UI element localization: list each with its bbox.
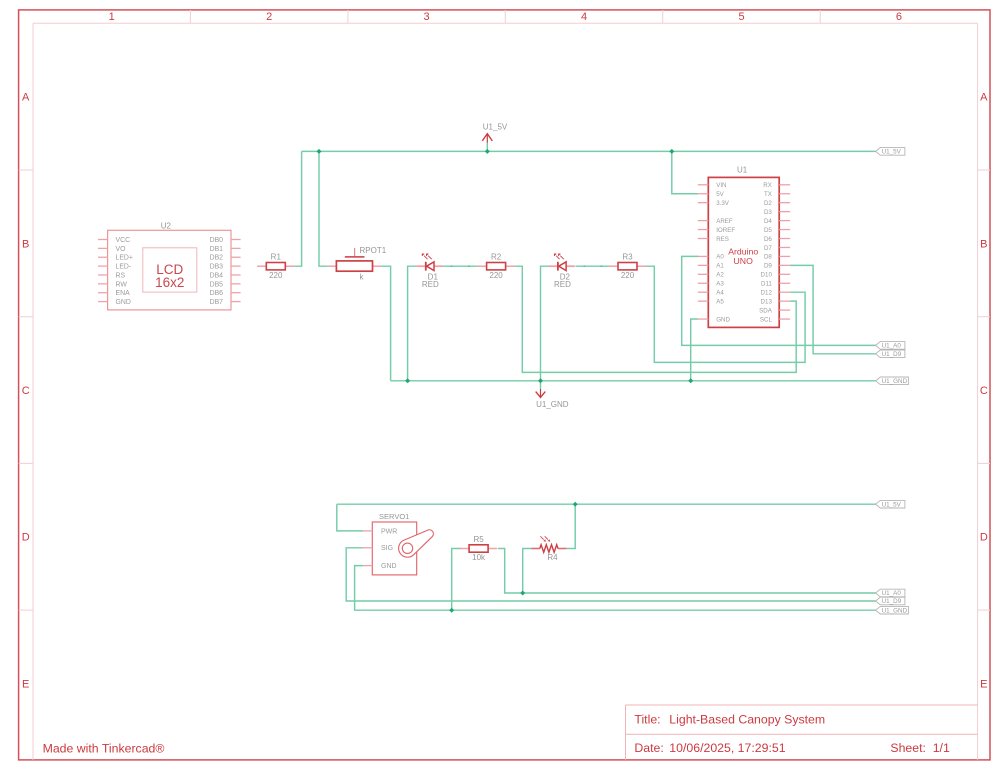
svg-text:LED-: LED- [116, 264, 132, 271]
svg-text:B: B [980, 238, 987, 250]
potentiometer RPOT1 [328, 246, 387, 281]
net flag U1_5V [876, 500, 905, 508]
wire U1 A0 to flag [682, 256, 876, 345]
Arduino UNO U1 [698, 165, 790, 327]
svg-text:A5: A5 [716, 298, 724, 305]
svg-text:SDA: SDA [759, 307, 773, 314]
svg-text:3.3V: 3.3V [716, 200, 730, 207]
wire D2 anode drop [541, 266, 549, 381]
svg-text:GND: GND [116, 299, 131, 306]
svg-text:U1_5V: U1_5V [483, 122, 508, 131]
junction 5V rail / RPOT1 [317, 149, 322, 154]
svg-text:SCL: SCL [760, 316, 773, 323]
svg-text:1/1: 1/1 [933, 741, 950, 755]
svg-text:DB6: DB6 [210, 290, 224, 297]
wire rail to SERVO1 PWR [337, 504, 364, 531]
U1 pin SCL [779, 318, 790, 320]
junction 5V rail / U1_5V symbol [485, 149, 490, 154]
LCD pin LED- [98, 265, 108, 267]
LCD pin DB6 [231, 292, 241, 294]
svg-text:Sheet:: Sheet: [890, 741, 926, 755]
U1 pin 5V [698, 193, 709, 195]
U1 pin IOREF [698, 229, 709, 231]
wire U1 GND pin drop [691, 319, 698, 381]
svg-text:D9: D9 [764, 263, 772, 270]
LCD pin GND [98, 301, 108, 303]
U1 pin D2 [779, 202, 790, 204]
wire rail to RPOT1 [319, 151, 328, 266]
net flag U1_A0 [876, 342, 905, 350]
servo motor SERVO1 [363, 512, 433, 575]
U1 pin A1 [698, 264, 709, 266]
svg-text:AREF: AREF [716, 218, 733, 225]
LED D1 (RED) [416, 254, 443, 289]
LCD module U2 [98, 221, 241, 310]
wire R3 to U1 D12 [646, 266, 805, 362]
U1 pin 3.3V [698, 202, 709, 204]
U1 pin D8 [779, 255, 790, 257]
svg-text:A4: A4 [716, 290, 724, 297]
svg-text:D4: D4 [764, 218, 772, 225]
svg-text:6: 6 [896, 11, 902, 23]
LCD pin VO [98, 247, 108, 249]
svg-text:R2: R2 [491, 253, 502, 262]
wire D2 to R3 [576, 265, 610, 267]
wire 5V rail [302, 150, 876, 152]
svg-text:DB2: DB2 [210, 255, 224, 262]
servo pin GND [363, 565, 372, 567]
resistor R1 [257, 253, 294, 280]
ground symbol U1_GND (down arrow) [536, 389, 569, 409]
svg-text:10k: 10k [472, 553, 486, 562]
svg-text:VCC: VCC [116, 237, 131, 244]
wire R1 to 5V rail [293, 151, 301, 266]
wire stub to U1_GND arrow [540, 381, 542, 389]
svg-text:RX: RX [763, 182, 772, 189]
wire servo 5V rail [337, 503, 876, 505]
U1 pin D3 [779, 211, 790, 213]
power symbol U1_5V (up arrow) [482, 122, 508, 142]
U1 pin A2 [698, 273, 709, 275]
svg-text:UNO: UNO [734, 256, 754, 266]
svg-text:R4: R4 [547, 553, 558, 562]
svg-text:U1_5V: U1_5V [882, 501, 902, 508]
resistor R3 [609, 253, 646, 280]
svg-text:R1: R1 [271, 253, 282, 262]
resistor R2 [477, 253, 514, 280]
svg-text:GND: GND [716, 316, 730, 323]
LCD pin RW [98, 283, 108, 285]
svg-text:A0: A0 [716, 254, 724, 261]
svg-text:D8: D8 [764, 254, 772, 261]
svg-text:k: k [360, 273, 365, 282]
U1 pin SDA [779, 309, 790, 311]
svg-text:DB3: DB3 [210, 264, 224, 271]
svg-text:U1: U1 [737, 165, 748, 174]
net flag U1_D9 [876, 350, 905, 358]
svg-text:10/06/2025, 17:29:51: 10/06/2025, 17:29:51 [669, 741, 785, 755]
U1 pin TX [779, 193, 790, 195]
svg-text:D11: D11 [761, 281, 772, 288]
svg-text:D: D [980, 532, 988, 544]
svg-text:E: E [22, 679, 29, 691]
svg-text:4: 4 [581, 11, 587, 23]
net flag U1_5V [876, 148, 905, 156]
svg-text:Made with Tinkercad®: Made with Tinkercad® [43, 741, 165, 755]
svg-text:DB4: DB4 [210, 272, 224, 279]
U1 pin D6 [779, 238, 790, 240]
svg-text:LED+: LED+ [116, 255, 133, 262]
svg-text:RES: RES [716, 236, 729, 243]
junction GND line / R5 [449, 608, 454, 613]
wire R2 to U1 D13 [514, 266, 796, 372]
wire R4 to A0 node [523, 549, 531, 594]
svg-text:A: A [22, 92, 30, 104]
LCD pin DB2 [231, 256, 241, 258]
svg-text:IOREF: IOREF [716, 227, 735, 234]
svg-text:U1_GND: U1_GND [882, 607, 908, 614]
title block [626, 705, 978, 760]
net flag U1_GND [876, 606, 909, 614]
svg-text:D6: D6 [764, 236, 772, 243]
svg-text:D3: D3 [764, 209, 772, 216]
U1 pin D11 [779, 282, 790, 284]
svg-text:DB0: DB0 [210, 237, 224, 244]
svg-text:A2: A2 [716, 272, 724, 279]
U1 pin D7 [779, 246, 790, 248]
wire RPOT1 to GND rail [382, 266, 391, 381]
wire SERVO1 SIG to flag [346, 548, 876, 601]
svg-text:E: E [980, 679, 987, 691]
LCD pin RS [98, 274, 108, 276]
U1 pin AREF [698, 220, 709, 222]
svg-text:5V: 5V [716, 191, 724, 198]
svg-text:220: 220 [269, 271, 283, 280]
svg-text:GND: GND [381, 563, 397, 570]
svg-text:DB7: DB7 [210, 299, 224, 306]
svg-text:B: B [22, 238, 29, 250]
svg-text:U1_A0: U1_A0 [882, 590, 902, 597]
LCD pin DB3 [231, 265, 241, 267]
svg-text:D10: D10 [761, 272, 773, 279]
U1 pin GND [698, 318, 709, 320]
svg-text:1: 1 [109, 11, 115, 23]
LED D2 (RED) [548, 254, 575, 289]
svg-text:U2: U2 [161, 221, 172, 230]
servo pin PWR [363, 530, 372, 532]
junction servo 5V rail / R4 [573, 502, 578, 507]
wire vertex dots [451, 265, 603, 267]
wire rail to R4 [567, 504, 576, 548]
U1 pin D10 [779, 273, 790, 275]
LCD pin DB5 [231, 283, 241, 285]
svg-text:U1_D9: U1_D9 [882, 351, 902, 358]
wire stub to U1_5V arrow [486, 142, 488, 152]
LCD pin DB7 [231, 301, 241, 303]
svg-text:U1_GND: U1_GND [882, 378, 908, 385]
svg-text:C: C [22, 385, 30, 397]
U1 pin VIN [698, 184, 709, 186]
svg-text:ENA: ENA [116, 290, 131, 297]
net flag U1_D9 [876, 597, 905, 605]
U1 pin D12 [779, 291, 790, 293]
svg-text:RS: RS [116, 272, 126, 279]
servo pin SIG [363, 547, 372, 549]
svg-text:D7: D7 [764, 245, 772, 252]
U1 pin RX [779, 184, 790, 186]
svg-text:A1: A1 [716, 263, 724, 270]
junction 5V rail / U1 5V pin [669, 149, 674, 154]
LCD pin ENA [98, 292, 108, 294]
U1 pin RES [698, 238, 709, 240]
U1 pin D4 [779, 220, 790, 222]
U1 pin A3 [698, 282, 709, 284]
svg-text:RED: RED [554, 280, 571, 289]
LCD pin DB4 [231, 274, 241, 276]
U1 pin A4 [698, 291, 709, 293]
resistor R5 [460, 535, 497, 562]
svg-text:220: 220 [489, 271, 503, 280]
junction GND rail / U1 GND pin [688, 378, 693, 383]
U1 pin D9 [779, 264, 790, 266]
svg-text:SIG: SIG [381, 545, 393, 552]
svg-text:RW: RW [116, 281, 128, 288]
wire D1 to R2 [443, 265, 478, 267]
photoresistor R4 [531, 536, 567, 562]
wire R5 to GND line [452, 549, 461, 611]
made with tinkercad note [43, 741, 165, 755]
LCD pin DB0 [231, 239, 241, 241]
svg-text:RPOT1: RPOT1 [360, 246, 387, 255]
svg-text:Date:: Date: [634, 741, 663, 755]
U1 pin D5 [779, 229, 790, 231]
net flag U1_GND [876, 377, 909, 385]
LCD pin LED+ [98, 256, 108, 258]
svg-text:16x2: 16x2 [155, 275, 184, 290]
svg-text:DB5: DB5 [210, 281, 224, 288]
LCD pin DB1 [231, 247, 241, 249]
svg-text:R5: R5 [473, 535, 484, 544]
net flag U1_A0 [876, 589, 905, 597]
svg-text:D5: D5 [764, 227, 772, 234]
svg-text:VIN: VIN [716, 182, 726, 189]
svg-text:2: 2 [266, 11, 272, 23]
svg-text:Light-Based Canopy System: Light-Based Canopy System [669, 712, 825, 726]
wire SERVO1 GND to flag [355, 566, 876, 611]
svg-text:Arduino: Arduino [728, 246, 758, 256]
svg-text:D12: D12 [761, 290, 773, 297]
svg-text:D2: D2 [764, 200, 772, 207]
svg-text:C: C [980, 385, 988, 397]
wire U1 D9 to flag [790, 265, 876, 353]
junction GND rail / U1_GND symbol [538, 378, 543, 383]
svg-text:U1_5V: U1_5V [882, 149, 902, 156]
svg-text:5: 5 [738, 11, 744, 23]
wire GND rail [391, 380, 876, 382]
servo horn [399, 530, 434, 557]
svg-text:DB1: DB1 [210, 246, 224, 253]
svg-text:220: 220 [621, 271, 635, 280]
wire rail to U1 5V pin [672, 151, 698, 193]
svg-text:PWR: PWR [381, 528, 397, 535]
svg-text:U1_A0: U1_A0 [882, 343, 902, 350]
U1 pin D13 [779, 300, 790, 302]
svg-text:D13: D13 [761, 298, 773, 305]
svg-text:U1_D9: U1_D9 [882, 598, 902, 605]
svg-text:A: A [980, 92, 988, 104]
wire A0 line to flag [523, 592, 876, 594]
U1 pin A0 [698, 255, 709, 257]
svg-text:TX: TX [764, 191, 772, 198]
U1 pin A5 [698, 300, 709, 302]
LCD pin VCC [98, 239, 108, 241]
svg-text:Title:: Title: [634, 712, 660, 726]
junction A0 node [520, 591, 525, 596]
svg-text:VO: VO [116, 246, 127, 253]
svg-text:R3: R3 [622, 253, 633, 262]
svg-text:U1_GND: U1_GND [536, 400, 569, 409]
svg-text:3: 3 [424, 11, 430, 23]
svg-text:SERVO1: SERVO1 [379, 512, 409, 521]
wire R5 to A0 node [498, 549, 523, 594]
junction GND rail / D1 [405, 378, 410, 383]
svg-text:A3: A3 [716, 281, 724, 288]
svg-text:D: D [22, 532, 30, 544]
svg-text:RED: RED [422, 280, 439, 289]
wire D1 anode drop [408, 266, 417, 381]
